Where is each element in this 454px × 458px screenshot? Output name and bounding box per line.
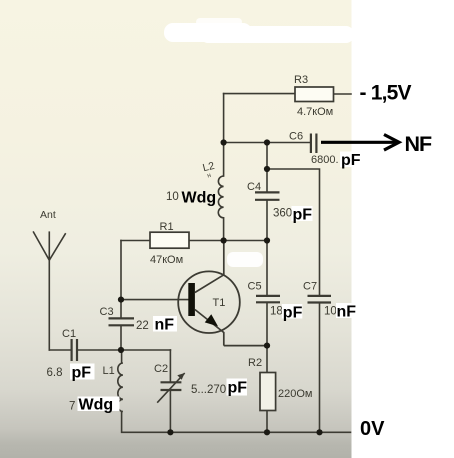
- wire R2 to ground rail: [266, 411, 268, 433]
- wire R3 right lead: [334, 93, 352, 95]
- antenna stem: [48, 260, 50, 350]
- label L2: [201, 160, 217, 180]
- label 18 pF: [270, 304, 303, 322]
- resistor R3: [295, 87, 334, 102]
- svg-text:18: 18: [270, 306, 283, 318]
- node R2 ground: [264, 429, 270, 435]
- svg-text:C2: C2: [154, 363, 168, 375]
- svg-text:pF: pF: [341, 152, 361, 169]
- svg-text:Ant: Ant: [40, 209, 56, 221]
- wire left branch vertical upper: [120, 241, 122, 318]
- white-out blob top: [164, 18, 354, 43]
- white margin band right: [352, 0, 454, 458]
- svg-text:10: 10: [166, 191, 179, 203]
- wire emitter to R2 node: [266, 346, 268, 373]
- node C7 ground: [316, 429, 322, 435]
- wire C4 branch lower: [266, 201, 268, 241]
- variable capacitor C2: [157, 373, 185, 403]
- wire L1 bottom stub and ground rail: [122, 412, 351, 433]
- node L2 top / C6 tap: [221, 139, 227, 145]
- svg-text:L1: L1: [103, 365, 115, 377]
- node C4 top: [264, 139, 270, 145]
- wire left branch vertical lower: [120, 326, 122, 350]
- svg-text:C3: C3: [100, 306, 114, 318]
- NF output arrow: [321, 135, 399, 151]
- resistor R1: [150, 232, 189, 248]
- svg-text:pF: pF: [293, 207, 313, 224]
- svg-text:- 1,5V: - 1,5V: [360, 82, 412, 105]
- svg-text:C6: C6: [289, 131, 303, 143]
- resistor R2: [260, 373, 276, 411]
- node C4 bottom: [264, 237, 270, 243]
- svg-text:R1: R1: [160, 221, 174, 233]
- svg-text:pF: pF: [72, 365, 92, 382]
- svg-text:5...270: 5...270: [191, 384, 226, 396]
- wire C6 feed: [224, 142, 310, 144]
- svg-text:R3: R3: [294, 74, 308, 86]
- svg-text:C7: C7: [303, 281, 317, 293]
- wire antenna to C1: [49, 349, 70, 351]
- label 10 Wdg: [166, 190, 216, 207]
- svg-text:NF: NF: [405, 132, 433, 156]
- wire C4 branch upper: [266, 143, 268, 192]
- capacitor C7: [308, 296, 332, 303]
- wire top horizontal to R3: [224, 93, 295, 95]
- node base: [118, 297, 124, 303]
- svg-text:C5: C5: [248, 281, 262, 293]
- node C7 tap: [264, 166, 270, 172]
- label pF of C6: [340, 152, 361, 170]
- wire L2 lower stub: [223, 218, 225, 241]
- inductor L1: [118, 363, 123, 412]
- white-out blob middle: [227, 252, 263, 267]
- capacitor C3: [109, 318, 135, 325]
- label 5...270 pF: [191, 379, 247, 397]
- svg-text:220Ом: 220Ом: [278, 388, 312, 400]
- svg-text:Wdg: Wdg: [79, 397, 114, 414]
- svg-text:C4: C4: [247, 181, 261, 193]
- wire L1 top stub: [121, 350, 123, 363]
- svg-text:Wdg: Wdg: [182, 190, 217, 207]
- capacitor C5: [256, 296, 280, 302]
- svg-text:R2: R2: [248, 357, 262, 369]
- svg-text:47кОм: 47кОм: [150, 254, 183, 266]
- antenna Ant: [33, 231, 66, 260]
- capacitor C1: [72, 339, 77, 361]
- wire C2 branch bottom: [169, 391, 171, 432]
- svg-text:6.8: 6.8: [47, 367, 63, 379]
- svg-text:nF: nF: [155, 317, 175, 334]
- svg-text:0V: 0V: [360, 418, 385, 440]
- wire base lead: [121, 299, 189, 301]
- svg-text:7: 7: [69, 401, 75, 413]
- label 22 nF: [136, 316, 177, 334]
- svg-text:4.7кОм: 4.7кОм: [297, 106, 333, 118]
- svg-text:10: 10: [324, 306, 337, 318]
- wire C5 branch upper: [266, 241, 268, 296]
- svg-text:C1: C1: [62, 328, 76, 340]
- node emitter junction: [264, 343, 270, 349]
- label 6.8 pF: [47, 364, 95, 382]
- inductor L2: [218, 176, 223, 218]
- wire C2 branch top: [169, 350, 171, 381]
- svg-text:6800.: 6800.: [311, 154, 339, 166]
- node collector: [221, 237, 227, 243]
- svg-text:pF: pF: [228, 380, 248, 397]
- label 7 Wdg: [69, 397, 120, 414]
- transistor T1: [178, 241, 267, 346]
- node tank top: [118, 347, 124, 353]
- scanned paper background: [0, 0, 352, 458]
- wire C1 to tank node: [78, 349, 170, 351]
- junction node dots: [118, 139, 323, 435]
- wire left vertical (top rail down to collector node): [223, 94, 225, 176]
- wire to C7 branch: [267, 169, 320, 295]
- wire C7 lower to ground rail: [319, 304, 321, 433]
- label 10 nF: [324, 303, 356, 321]
- label 360 pF: [273, 206, 313, 224]
- svg-text:22: 22: [136, 320, 149, 332]
- capacitor C4: [255, 192, 280, 199]
- svg-text:nF: nF: [337, 304, 357, 321]
- wire base row horizontal: [121, 240, 267, 242]
- capacitor C6: [311, 134, 317, 154]
- node C2 ground: [167, 429, 173, 435]
- wire C5 branch lower: [266, 303, 268, 345]
- svg-text:360: 360: [273, 208, 292, 220]
- svg-text:T1: T1: [213, 297, 226, 309]
- svg-text:pF: pF: [283, 305, 303, 322]
